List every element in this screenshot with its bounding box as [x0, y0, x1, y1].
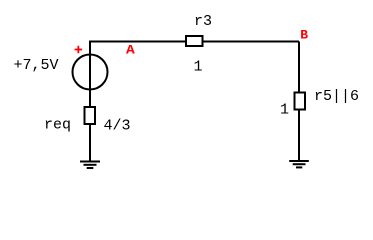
- svg-text:r5||6: r5||6: [314, 88, 359, 105]
- svg-text:1: 1: [194, 58, 203, 75]
- svg-text:+7,5V: +7,5V: [14, 57, 59, 74]
- wire: top horizontal from source to node B: [89, 41, 299, 43]
- plus polarity mark of V1: [75, 46, 83, 53]
- wire: right vertical from r5||6 to ground: [298, 109, 300, 162]
- voltage source V1 (circle): [73, 55, 108, 90]
- resistor r5||6 (box): [295, 93, 306, 110]
- wire: left vertical through source down to req: [89, 41, 91, 108]
- svg-text:1: 1: [280, 102, 289, 119]
- svg-text:B: B: [300, 28, 308, 43]
- ground (left): [80, 162, 100, 169]
- svg-text:A: A: [126, 43, 135, 58]
- ground (right): [289, 161, 309, 167]
- wire: right vertical from node B to r5||6: [298, 42, 300, 94]
- resistor req (box): [85, 107, 96, 124]
- svg-text:req: req: [44, 117, 71, 134]
- svg-text:4/3: 4/3: [104, 118, 131, 135]
- wire: left vertical from req to ground: [89, 124, 91, 162]
- svg-text:r3: r3: [194, 13, 212, 30]
- resistor r3 (box): [186, 36, 203, 46]
